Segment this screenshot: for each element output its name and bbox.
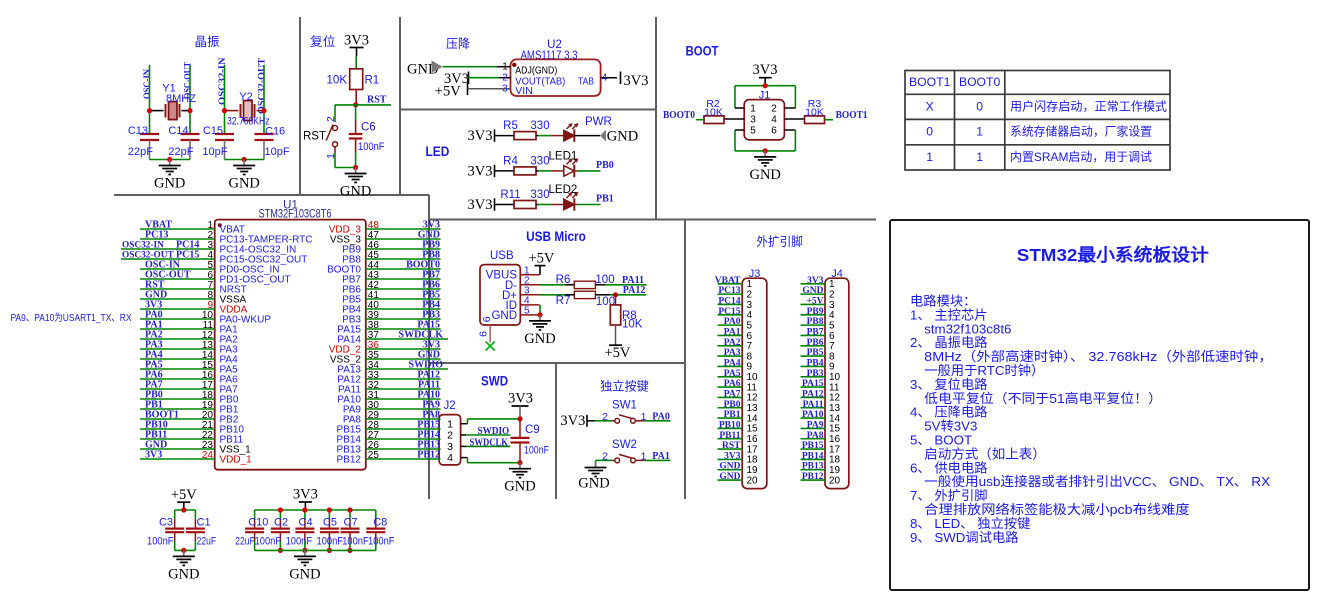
pin J3-10 net PA5 bbox=[718, 376, 743, 378]
svg-text:20: 20 bbox=[747, 475, 759, 486]
svg-text:PA6: PA6 bbox=[724, 379, 741, 389]
pin 34 U1 PA13 bbox=[366, 368, 448, 370]
svg-text:C4: C4 bbox=[299, 516, 313, 528]
svg-text:10pF: 10pF bbox=[202, 146, 227, 158]
svg-text:1: 1 bbox=[502, 62, 508, 73]
pin lead J2 pin2 bbox=[461, 434, 466, 436]
pin J3-11 net PA6 bbox=[718, 386, 743, 388]
wire node to switch top bbox=[335, 104, 356, 106]
pin 14 U1 PA4 bbox=[140, 358, 215, 360]
svg-text:22uF: 22uF bbox=[197, 536, 217, 548]
wire 3V3 to R11 bbox=[495, 204, 515, 206]
svg-text:8MHZ: 8MHZ bbox=[166, 93, 196, 105]
svg-text:100nF: 100nF bbox=[286, 536, 313, 548]
svg-text:100nF: 100nF bbox=[317, 536, 344, 548]
svg-text:6: 6 bbox=[478, 331, 490, 337]
svg-text:OSC32-IN: OSC32-IN bbox=[218, 57, 228, 105]
svg-text:PA12: PA12 bbox=[623, 285, 646, 296]
svg-text:3: 3 bbox=[447, 441, 453, 453]
pin J4-6 net PB7 bbox=[801, 334, 826, 336]
svg-text:GND: GND bbox=[154, 176, 185, 192]
pin lead J1 pin3 bbox=[724, 118, 744, 120]
pin J3-5 net PA0 bbox=[718, 324, 743, 326]
svg-text:stm32f103c8t6: stm32f103c8t6 bbox=[924, 321, 1011, 336]
wire SWDCLK bbox=[466, 445, 510, 447]
svg-text:X: X bbox=[926, 99, 934, 113]
junction node crystal1 gnd bbox=[167, 157, 172, 162]
pin J4-14 net PA10 bbox=[801, 417, 826, 419]
junction node 3V3 bank top bbox=[327, 507, 332, 512]
resistor R8 10K bbox=[615, 295, 617, 305]
wire R3 to BOOT1 bbox=[825, 119, 833, 121]
wire LED to PB1 bbox=[574, 204, 577, 206]
wire crystal2 bottom bbox=[225, 159, 265, 161]
junction node 3V3 bank bottom bbox=[278, 548, 283, 553]
capacitor C5 100nF bbox=[328, 510, 330, 519]
svg-text:3V3: 3V3 bbox=[624, 73, 649, 89]
wire LED to GND pwr bbox=[574, 135, 600, 137]
svg-text:GND: GND bbox=[228, 176, 259, 192]
pin J3-12 net PA7 bbox=[718, 396, 743, 398]
svg-text:一般使用usb连接器或者排针引出VCC、 GND、 TX、: 一般使用usb连接器或者排针引出VCC、 GND、 TX、 RX bbox=[924, 473, 1270, 489]
pin 40 U1 PB4 bbox=[366, 308, 441, 310]
svg-text:压降: 压降 bbox=[446, 37, 470, 51]
pin J3-16 net PB11 bbox=[718, 438, 743, 440]
svg-text:6、 供电电路: 6、 供电电路 bbox=[910, 460, 988, 475]
capacitor C4 100nF bbox=[304, 510, 306, 519]
capacitor C15 bbox=[215, 133, 234, 135]
svg-text:GND: GND bbox=[719, 472, 740, 482]
no-connect X marker bbox=[486, 342, 495, 351]
junction node +5V top bbox=[181, 507, 186, 512]
ground reset bbox=[355, 168, 357, 174]
resistor R3 10K bbox=[805, 116, 825, 124]
resistor R11 330 bbox=[514, 201, 536, 209]
svg-text:C8: C8 bbox=[373, 516, 387, 528]
svg-text:C13: C13 bbox=[128, 125, 148, 137]
wire D- to R6 bbox=[540, 284, 566, 286]
wire R1 to node bbox=[355, 90, 357, 105]
svg-text:PB9: PB9 bbox=[807, 307, 824, 317]
pin J3-18 net 3V3 bbox=[718, 458, 743, 460]
resistor R5 330 bbox=[514, 132, 536, 140]
svg-text:PB12: PB12 bbox=[802, 472, 824, 482]
pin 21 U1 PB10 bbox=[140, 428, 215, 430]
svg-text:5、 BOOT: 5、 BOOT bbox=[910, 433, 972, 448]
crystal Y1 bbox=[150, 110, 164, 112]
svg-text:3V3: 3V3 bbox=[724, 451, 741, 461]
svg-text:VIN: VIN bbox=[515, 85, 533, 97]
svg-text:RST: RST bbox=[722, 441, 741, 451]
svg-text:OSC32-OUT: OSC32-OUT bbox=[258, 57, 268, 114]
pin J3-4 net PC15 bbox=[718, 314, 743, 316]
svg-text:1: 1 bbox=[641, 411, 647, 423]
pin 3 U1 PC14-OSC32_IN bbox=[121, 248, 215, 250]
pin 38 U1 PA15 bbox=[366, 328, 441, 330]
svg-text:3、 复位电路: 3、 复位电路 bbox=[910, 377, 988, 392]
capacitor C8 100nF bbox=[375, 510, 377, 519]
LED LED2 bbox=[564, 199, 575, 210]
wire D+ to R7 bbox=[540, 294, 566, 296]
wire R6 to PA11 bbox=[595, 284, 605, 286]
wire OSC-IN vertical bbox=[149, 65, 151, 134]
pin 32 U1 PA11 bbox=[366, 388, 441, 390]
svg-text:6: 6 bbox=[481, 316, 493, 322]
capacitor C2 100nF bbox=[279, 510, 281, 519]
ground 3V3 bank bbox=[304, 550, 306, 556]
pin J3-20 net GND bbox=[718, 479, 743, 481]
svg-text:独立按键: 独立按键 bbox=[600, 379, 649, 394]
svg-text:5: 5 bbox=[750, 126, 756, 137]
svg-text:PA2: PA2 bbox=[724, 338, 741, 348]
svg-text:C16: C16 bbox=[265, 126, 285, 138]
pin J4-12 net PA12 bbox=[801, 396, 826, 398]
capacitor C10 22uF bbox=[254, 510, 256, 519]
svg-text:SWDCLK: SWDCLK bbox=[470, 437, 509, 448]
svg-text:STM32最小系统板设计: STM32最小系统板设计 bbox=[1017, 245, 1210, 265]
svg-text:SW1: SW1 bbox=[612, 399, 637, 411]
pin J3-17 net RST bbox=[718, 448, 743, 450]
svg-text:PB0: PB0 bbox=[724, 400, 741, 410]
svg-text:C10: C10 bbox=[248, 516, 268, 528]
pin 16 U1 PA6 bbox=[140, 378, 215, 380]
pin 8 U1 VSSA bbox=[140, 298, 215, 300]
svg-text:10K: 10K bbox=[622, 319, 643, 331]
pin J3-7 net PA2 bbox=[718, 345, 743, 347]
pin 12 U1 PA2 bbox=[140, 338, 215, 340]
svg-text:STM32F103C8T6: STM32F103C8T6 bbox=[259, 207, 332, 221]
svg-text:2、 晶振电路: 2、 晶振电路 bbox=[910, 335, 988, 350]
capacitor C7 100nF bbox=[349, 510, 351, 519]
pin 18 U1 PB0 bbox=[140, 398, 215, 400]
pin 24 U1 VDD_1 bbox=[140, 458, 215, 460]
junction node BOOT 3V3 bbox=[763, 83, 768, 88]
wire crystal1 bottom bbox=[150, 159, 191, 161]
svg-text:PA7: PA7 bbox=[724, 389, 741, 399]
svg-text:C5: C5 bbox=[323, 516, 337, 528]
svg-text:100nF: 100nF bbox=[342, 536, 369, 548]
pin J4-11 net PA15 bbox=[801, 386, 826, 388]
pin J4-17 net PB15 bbox=[801, 448, 826, 450]
svg-text:PB13: PB13 bbox=[802, 462, 824, 472]
svg-text:32.768KHz: 32.768KHz bbox=[227, 116, 270, 128]
svg-text:外扩引脚: 外扩引脚 bbox=[756, 234, 803, 249]
pin J4-18 net PB14 bbox=[801, 458, 826, 460]
capacitor C14 bbox=[181, 133, 200, 135]
svg-text:PA1: PA1 bbox=[724, 327, 741, 337]
svg-text:PB12: PB12 bbox=[337, 454, 362, 465]
svg-text:一般用于RTC时钟）: 一般用于RTC时钟） bbox=[924, 362, 1044, 378]
pin 11 U1 PA1 bbox=[140, 328, 215, 330]
section divider vertical (reset|regulator) bbox=[399, 17, 401, 195]
svg-text:PWR: PWR bbox=[585, 116, 612, 128]
svg-text:R4: R4 bbox=[503, 155, 518, 167]
pin J3-2 net PC13 bbox=[718, 293, 743, 295]
svg-text:PA15: PA15 bbox=[802, 379, 824, 389]
svg-text:PA0: PA0 bbox=[652, 411, 670, 422]
svg-text:PA9、PA10为USART1_TX、RX: PA9、PA10为USART1_TX、RX bbox=[11, 312, 132, 324]
wire 3V3 bank top bbox=[255, 509, 376, 511]
section divider vertical (LED|BOOT) bbox=[655, 17, 657, 220]
pin 22 U1 PB11 bbox=[140, 438, 215, 440]
junction node 3V3 bank top bbox=[302, 507, 307, 512]
svg-text:电路模块：: 电路模块： bbox=[910, 294, 976, 309]
svg-text:SWD: SWD bbox=[481, 374, 508, 389]
wire +5V bank bottom bbox=[175, 549, 196, 551]
svg-text:PB10: PB10 bbox=[719, 420, 741, 430]
svg-text:PA3: PA3 bbox=[724, 348, 741, 358]
junction node reset gnd bbox=[353, 165, 358, 170]
svg-text:24: 24 bbox=[202, 450, 214, 461]
wire R5 to LED bbox=[536, 135, 538, 137]
pin 25 U1 PB12 bbox=[366, 458, 441, 460]
svg-text:R11: R11 bbox=[500, 189, 520, 201]
svg-text:6: 6 bbox=[771, 126, 777, 137]
svg-text:100nF: 100nF bbox=[358, 141, 385, 153]
pin lead J1 pin1 bbox=[735, 107, 744, 109]
pin 27 U1 PB14 bbox=[366, 438, 441, 440]
svg-text:3: 3 bbox=[502, 84, 508, 95]
junction node Y2 right bbox=[261, 108, 266, 113]
pin 13 U1 PA3 bbox=[140, 348, 215, 350]
pin 6 U1 PD1-OSC_OUT bbox=[140, 278, 215, 280]
wire SWDIO bbox=[466, 434, 510, 436]
svg-text:GND: GND bbox=[749, 167, 780, 183]
svg-text:4: 4 bbox=[602, 73, 608, 84]
svg-text:RST: RST bbox=[303, 131, 326, 143]
svg-text:PB7: PB7 bbox=[807, 327, 824, 337]
ground PWR led bbox=[600, 130, 606, 142]
wire LED to PB0 bbox=[574, 170, 577, 172]
section divider horizontal (top of U1 area) bbox=[114, 194, 429, 196]
svg-text:3V3: 3V3 bbox=[753, 62, 778, 78]
pin J4-15 net PA9 bbox=[801, 427, 826, 429]
ground BOOT bbox=[764, 151, 766, 157]
svg-text:330: 330 bbox=[530, 189, 549, 201]
pin J4-7 net PB6 bbox=[801, 345, 826, 347]
wire 3V3 to R5 bbox=[495, 135, 515, 137]
svg-text:R1: R1 bbox=[365, 75, 380, 87]
svg-text:2: 2 bbox=[325, 116, 337, 122]
pin 37 U1 PA14 bbox=[366, 338, 448, 340]
svg-text:3V3: 3V3 bbox=[344, 33, 369, 49]
svg-text:0: 0 bbox=[926, 125, 933, 139]
junction node 3V3 bank bottom bbox=[302, 548, 307, 553]
pin J3-15 net PB10 bbox=[718, 427, 743, 429]
wire BOOT bottom rail bbox=[734, 130, 736, 151]
ground +5V bank bbox=[183, 550, 185, 556]
section divider horizontal (LED,BOOT bottom) bbox=[429, 219, 876, 221]
svg-text:22uF: 22uF bbox=[235, 536, 255, 548]
svg-text:2: 2 bbox=[602, 411, 608, 423]
svg-text:2: 2 bbox=[502, 73, 508, 84]
wire pin4 to gnd rail bbox=[467, 458, 469, 463]
resistor R1 10K bbox=[350, 69, 363, 90]
svg-text:2: 2 bbox=[602, 451, 608, 463]
pin 1 U1 VBAT bbox=[140, 228, 215, 230]
svg-text:C9: C9 bbox=[525, 424, 540, 436]
pin J4-13 net PA11 bbox=[801, 407, 826, 409]
svg-text:3V3: 3V3 bbox=[293, 486, 318, 502]
junction node crystal2 gnd bbox=[242, 157, 247, 162]
svg-text:PA9: PA9 bbox=[807, 420, 824, 430]
svg-text:PA5: PA5 bbox=[724, 369, 741, 379]
svg-text:3V3: 3V3 bbox=[560, 413, 585, 429]
capacitor C6 100nF bbox=[355, 105, 357, 120]
pin 39 U1 PB3 bbox=[366, 318, 441, 320]
pin J3-9 net PA4 bbox=[718, 365, 743, 367]
svg-text:GND: GND bbox=[524, 331, 555, 347]
svg-text:PC13: PC13 bbox=[718, 286, 740, 296]
svg-text:C15: C15 bbox=[203, 125, 223, 137]
svg-text:3V3: 3V3 bbox=[508, 391, 533, 407]
power +5V pullup bbox=[615, 325, 617, 345]
pin 17 U1 PA7 bbox=[140, 388, 215, 390]
junction node BOOT gnd bbox=[763, 148, 768, 153]
svg-text:2: 2 bbox=[447, 430, 453, 442]
svg-text:10K: 10K bbox=[327, 75, 348, 87]
wire OSC32-IN vertical bbox=[224, 65, 226, 134]
pin lead J1 pin6 bbox=[784, 129, 795, 131]
pin 33 U1 PA12 bbox=[366, 378, 441, 380]
pin 47 U1 VSS_3 bbox=[366, 238, 441, 240]
wire R11 to LED bbox=[536, 204, 538, 206]
svg-text:R6: R6 bbox=[556, 274, 571, 286]
pin J3-3 net PC14 bbox=[718, 303, 743, 305]
wire 3V3 to R1 bbox=[355, 56, 357, 69]
svg-text:100nF: 100nF bbox=[524, 444, 549, 456]
pin 26 U1 PB13 bbox=[366, 448, 441, 450]
svg-text:GND: GND bbox=[607, 128, 638, 144]
svg-text:4、 压降电路: 4、 压降电路 bbox=[910, 405, 988, 420]
svg-text:10pF: 10pF bbox=[265, 146, 290, 158]
svg-text:OSC-IN: OSC-IN bbox=[143, 69, 153, 99]
pin lead J2 pin1 bbox=[461, 423, 468, 425]
junction node 3V3 bank top bbox=[347, 507, 352, 512]
wire OSC-OUT vertical bbox=[189, 65, 191, 134]
svg-text:复位: 复位 bbox=[310, 34, 336, 49]
pin 44 U1 BOOT0 bbox=[366, 268, 441, 270]
svg-text:PB5: PB5 bbox=[807, 348, 824, 358]
svg-text:启动方式（如上表）: 启动方式（如上表） bbox=[924, 446, 1046, 461]
svg-text:C6: C6 bbox=[361, 122, 376, 134]
pin J4-4 net PB9 bbox=[801, 314, 826, 316]
wire BOOT top rail bbox=[735, 85, 795, 87]
wire BOOT0 to R2 bbox=[696, 119, 704, 121]
wire 3V3 bank bottom bbox=[255, 549, 376, 551]
svg-text:1: 1 bbox=[641, 451, 647, 463]
section divider horizontal (USB|SWD) bbox=[429, 362, 685, 364]
pin 19 U1 PB1 bbox=[140, 408, 215, 410]
svg-text:GND: GND bbox=[289, 566, 320, 582]
pin J4-1 net 3V3 bbox=[801, 283, 826, 285]
pin lead J1 pin4 bbox=[784, 118, 804, 120]
pin 15 U1 PA5 bbox=[140, 368, 215, 370]
junction node D+ pullup bbox=[613, 292, 618, 297]
svg-text:+5V: +5V bbox=[435, 84, 461, 100]
pin 4 TAB wire bbox=[601, 77, 617, 79]
pin J3-6 net PA1 bbox=[718, 334, 743, 336]
svg-text:3: 3 bbox=[750, 115, 756, 126]
svg-text:PB3: PB3 bbox=[807, 369, 824, 379]
svg-text:PA8: PA8 bbox=[807, 431, 824, 441]
svg-text:VDD_1: VDD_1 bbox=[220, 454, 253, 465]
wire R7 to PA12 bbox=[595, 294, 610, 296]
wire +5V bank top bbox=[175, 509, 196, 511]
LED LED1 bbox=[564, 166, 575, 177]
svg-text:SWDIO: SWDIO bbox=[478, 426, 510, 437]
pin 2 U1 PC13-TAMPER-RTC bbox=[140, 238, 215, 240]
pin lead J1 pin2 bbox=[784, 107, 795, 109]
section divider vertical (SWD|buttons) bbox=[555, 363, 557, 499]
junction node Y1 right bbox=[187, 108, 192, 113]
wire +5V to pin3 bbox=[468, 88, 511, 90]
svg-text:+5V: +5V bbox=[605, 345, 631, 361]
pin lead USB pin4 ID bbox=[520, 304, 539, 306]
pin 7 U1 NRST bbox=[140, 288, 215, 290]
svg-text:C1: C1 bbox=[197, 516, 211, 528]
svg-text:PB1: PB1 bbox=[596, 194, 614, 205]
pin 5 U1 PD0-OSC_IN bbox=[140, 268, 215, 270]
pin lead J2 pin4 bbox=[461, 457, 468, 459]
pin J3-14 net PB1 bbox=[718, 417, 743, 419]
pin 4 U1 PC15-OSC32_OUT bbox=[121, 258, 215, 260]
pin lead USB pin5 GND bbox=[520, 314, 540, 316]
svg-text:系统存储器启动，厂家设置: 系统存储器启动，厂家设置 bbox=[1010, 124, 1152, 139]
svg-text:PA10: PA10 bbox=[802, 410, 824, 420]
pin J4-20 net PB12 bbox=[801, 479, 826, 481]
pin 43 U1 PB7 bbox=[366, 278, 441, 280]
svg-text:0: 0 bbox=[976, 99, 983, 113]
svg-text:BOOT0: BOOT0 bbox=[959, 75, 1001, 89]
resistor R6 100 bbox=[574, 281, 595, 288]
junction node +5V gnd bbox=[181, 548, 186, 553]
wire pin1 to 3V3 bbox=[467, 419, 469, 424]
pin J4-10 net PB3 bbox=[801, 376, 826, 378]
svg-text:1: 1 bbox=[926, 150, 933, 164]
pin J4-3 net +5V bbox=[801, 303, 826, 305]
pin 41 U1 PB5 bbox=[366, 298, 441, 300]
svg-text:9、 SWD调试电路: 9、 SWD调试电路 bbox=[910, 530, 1019, 545]
svg-text:1、 主控芯片: 1、 主控芯片 bbox=[910, 307, 988, 322]
svg-text:R7: R7 bbox=[556, 295, 571, 307]
svg-text:+5V: +5V bbox=[171, 487, 197, 503]
junction node Y2 left bbox=[222, 108, 227, 113]
svg-text:LED1: LED1 bbox=[549, 151, 578, 163]
capacitor C3 100nF bbox=[174, 510, 176, 519]
svg-text:100nF: 100nF bbox=[368, 536, 395, 548]
svg-text:+5V: +5V bbox=[806, 296, 823, 306]
svg-text:1: 1 bbox=[976, 125, 983, 139]
pin 1 marker U2 bbox=[512, 63, 516, 67]
wire GND to pin1 bbox=[443, 66, 498, 68]
wire 3V3 to R4 bbox=[495, 170, 515, 172]
svg-text:LED: LED bbox=[426, 144, 450, 159]
pin lead J2 pin3 bbox=[461, 445, 466, 447]
pin J3-13 net PB0 bbox=[718, 407, 743, 409]
svg-text:2: 2 bbox=[771, 104, 777, 115]
svg-text:C2: C2 bbox=[274, 516, 288, 528]
pin 35 U1 VSS_2 bbox=[366, 358, 441, 360]
LED PWR bbox=[564, 130, 575, 141]
svg-text:PB0: PB0 bbox=[596, 160, 614, 171]
svg-text:PA11: PA11 bbox=[803, 400, 824, 410]
svg-text:LED2: LED2 bbox=[549, 184, 578, 196]
svg-text:R5: R5 bbox=[503, 120, 518, 132]
wire net RST bbox=[356, 104, 391, 106]
pin lead J1 pin5 bbox=[735, 129, 744, 131]
svg-text:1: 1 bbox=[447, 418, 453, 430]
